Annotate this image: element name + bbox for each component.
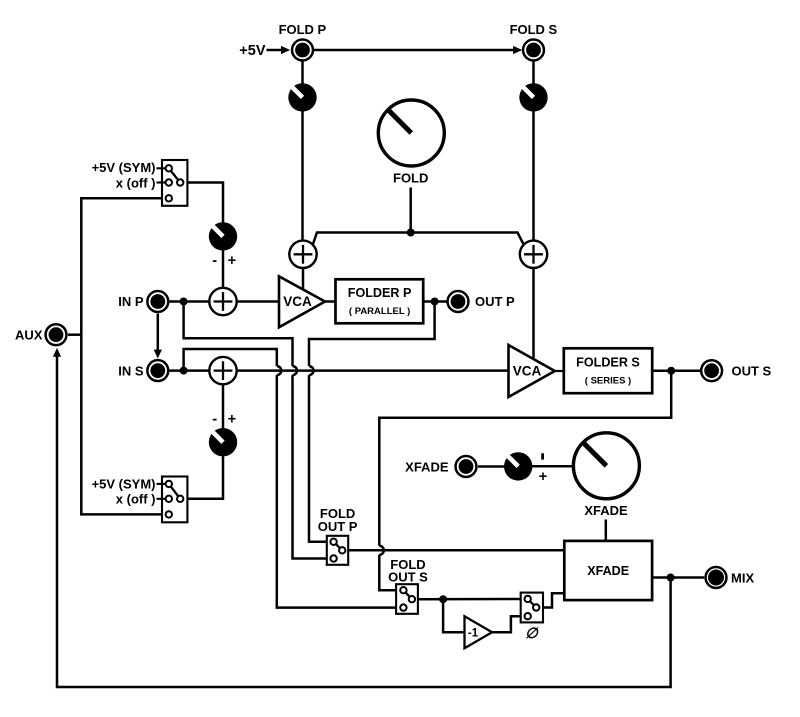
junction dot OUT P [431, 298, 439, 306]
jack MIX [706, 567, 727, 588]
svg-text:+5V (SYM): +5V (SYM) [92, 160, 156, 175]
wire FOLD S attenuator to summing node S [532, 111, 535, 241]
jack OUT P [448, 291, 469, 312]
junction dot fold out S [439, 595, 447, 603]
wire summing node P to VCA P cv input [302, 268, 305, 290]
svg-text:( PARALLEL ): ( PARALLEL ) [349, 306, 410, 317]
arrowhead into FOLD S jack [513, 46, 522, 54]
wire MIX feedback to AUX jack [57, 357, 671, 687]
svg-text:x (off ): x (off ) [116, 176, 156, 191]
wire FOLD S jack to attenuator [532, 61, 535, 84]
switch FOLD OUT P [327, 536, 348, 565]
wire hop IN S dry over IN S line [277, 366, 282, 375]
wire hop continuation IN S dry tap [277, 375, 400, 607]
wire attenuverter P to summing node P [222, 251, 225, 289]
wire VCA P to FOLDER P [325, 300, 336, 303]
svg-text:AUX: AUX [15, 327, 43, 342]
wire FOLDER S to OUT S jack [652, 369, 700, 372]
wire summing node to VCA S [237, 369, 509, 372]
summing node P [209, 288, 236, 315]
summing node fold P [289, 241, 316, 268]
panel knob FOLD [378, 100, 444, 166]
wire OUT P tap down to FOLD OUT P switch top [309, 302, 435, 367]
vca P [279, 276, 325, 327]
wire summing node to VCA P [237, 300, 279, 303]
svg-text:OUT P: OUT P [318, 519, 358, 534]
svg-text:+: + [539, 469, 547, 485]
wire FOLD P jack to FOLD S jack [314, 49, 515, 52]
jack IN S [147, 360, 168, 381]
switch FOLD OUT S [396, 584, 418, 614]
wire +5V arrow line into FOLD P jack [267, 49, 283, 52]
jack XFADE [456, 456, 477, 477]
wire IN P dry tap to FOLD OUT P switch bottom [184, 302, 293, 367]
wire hop continuation OUT S tap [379, 555, 400, 590]
wire FOLD OUT S switch to phase switch top [415, 598, 524, 601]
wire switch SYM P to attenuverter P [184, 183, 224, 224]
wire hop IN P dry over IN S line [293, 366, 298, 375]
wire hop OUT P tap over IN S line [309, 366, 314, 375]
wire attenuverter S to switch SYM S [184, 456, 224, 499]
jack IN P [147, 291, 168, 312]
svg-text:VCA: VCA [513, 364, 542, 379]
svg-text:IN P: IN P [118, 294, 144, 309]
junction dot IN P [180, 298, 188, 306]
svg-text:+5V: +5V [239, 43, 266, 59]
junction dot IN S [180, 367, 188, 375]
svg-text:OUT P: OUT P [475, 294, 515, 309]
wire OUT S tap down-left to FOLD OUT S switch top [379, 371, 671, 546]
wire hop continuation IN P dry tap [293, 375, 331, 558]
vca S [509, 345, 555, 397]
switch phase [521, 593, 543, 623]
box FOLDER S [564, 348, 652, 393]
wire FOLDER P to OUT P jack [423, 300, 447, 303]
wire FOLD knob to bus [409, 188, 412, 233]
attenuator knob FOLD S [519, 83, 547, 111]
wire IN S dry tap to FOLD OUT S switch bottom [184, 349, 277, 371]
wire IN S jack to summing node [169, 369, 210, 372]
attenuverter knob SYM S [209, 428, 237, 456]
wire hop continuation OUT P tap [309, 375, 331, 542]
attenuator knob XFADE cv [504, 452, 532, 480]
jack AUX [46, 324, 67, 345]
wire XFADE knob to XFADE box [605, 520, 608, 541]
svg-text:x (off ): x (off ) [116, 492, 156, 507]
jack FOLD S [523, 40, 544, 61]
svg-text:+5V (SYM): +5V (SYM) [92, 477, 156, 492]
svg-text:FOLD: FOLD [393, 170, 428, 185]
wire AUX jack to bus [68, 333, 81, 336]
junction dot OUT S [667, 367, 675, 375]
svg-text:XFADE: XFADE [405, 459, 449, 474]
svg-text:FOLDER P: FOLDER P [348, 286, 412, 300]
wire FOLD OUT P switch to XFADE box [345, 549, 564, 552]
wire inverter output to phase switch bottom [492, 616, 524, 632]
svg-text:VCA: VCA [283, 294, 312, 309]
summing node fold S [520, 241, 547, 268]
wire summing node S to attenuverter S [222, 385, 225, 429]
box XFADE [564, 541, 652, 600]
wire junction to inverter input [443, 599, 464, 632]
svg-text:MIX: MIX [731, 571, 754, 586]
wire XFADE attenuator to XFADE knob [531, 465, 573, 468]
junction dot MIX [667, 574, 675, 582]
wire summing node S to VCA S cv input [532, 268, 535, 360]
svg-text:XFADE: XFADE [587, 564, 629, 578]
wire phase switch to XFADE box [539, 593, 564, 607]
svg-text:OUT S: OUT S [732, 363, 772, 378]
svg-text:-1: -1 [468, 627, 479, 639]
svg-text:+: + [228, 411, 236, 427]
inverter -1 [465, 616, 493, 648]
attenuator knob FOLD P [288, 83, 316, 111]
wire FOLD P jack to attenuator [301, 61, 304, 84]
svg-text:OUT S: OUT S [388, 570, 428, 585]
wire FOLD P attenuator to summing node P [301, 111, 304, 241]
svg-text:+: + [228, 253, 236, 269]
box FOLDER P [336, 279, 424, 323]
svg-text:IN S: IN S [118, 363, 144, 378]
summing node S [209, 357, 236, 384]
svg-text:FOLD S: FOLD S [510, 22, 558, 37]
arrowhead feedback into AUX jack [53, 348, 61, 357]
wire AUX bus to both SYM switches [81, 198, 165, 514]
svg-text:∅: ∅ [525, 626, 539, 642]
svg-text:XFADE: XFADE [584, 503, 628, 518]
switch SYM P [157, 160, 188, 206]
junction dot FOLD bus [407, 229, 415, 237]
svg-text:( SERIES ): ( SERIES ) [585, 376, 631, 387]
arrowhead +5V into FOLD P [281, 46, 290, 54]
arrowhead IN P to IN S [154, 350, 162, 359]
wire VCA S to FOLDER S [554, 370, 564, 372]
wire FOLD bus [313, 233, 524, 245]
label minus tick XFADE [541, 453, 544, 459]
svg-text:FOLDER S: FOLDER S [576, 355, 640, 369]
jack OUT S [701, 360, 722, 381]
wire XFADE box to MIX jack [652, 576, 704, 579]
wire IN P jack normalled to IN S jack [157, 314, 160, 351]
wire hop OUT S tap over FOLD OUT P line [379, 546, 384, 555]
switch SYM S [157, 477, 188, 523]
svg-text:FOLD P: FOLD P [279, 22, 327, 37]
svg-text:-: - [212, 253, 217, 269]
wire XFADE jack to attenuator [478, 465, 505, 468]
svg-text:-: - [212, 411, 217, 427]
attenuverter knob SYM P [209, 222, 237, 250]
panel knob XFADE [573, 433, 639, 499]
jack FOLD P [292, 40, 313, 61]
wire IN P jack to summing node [169, 300, 210, 303]
